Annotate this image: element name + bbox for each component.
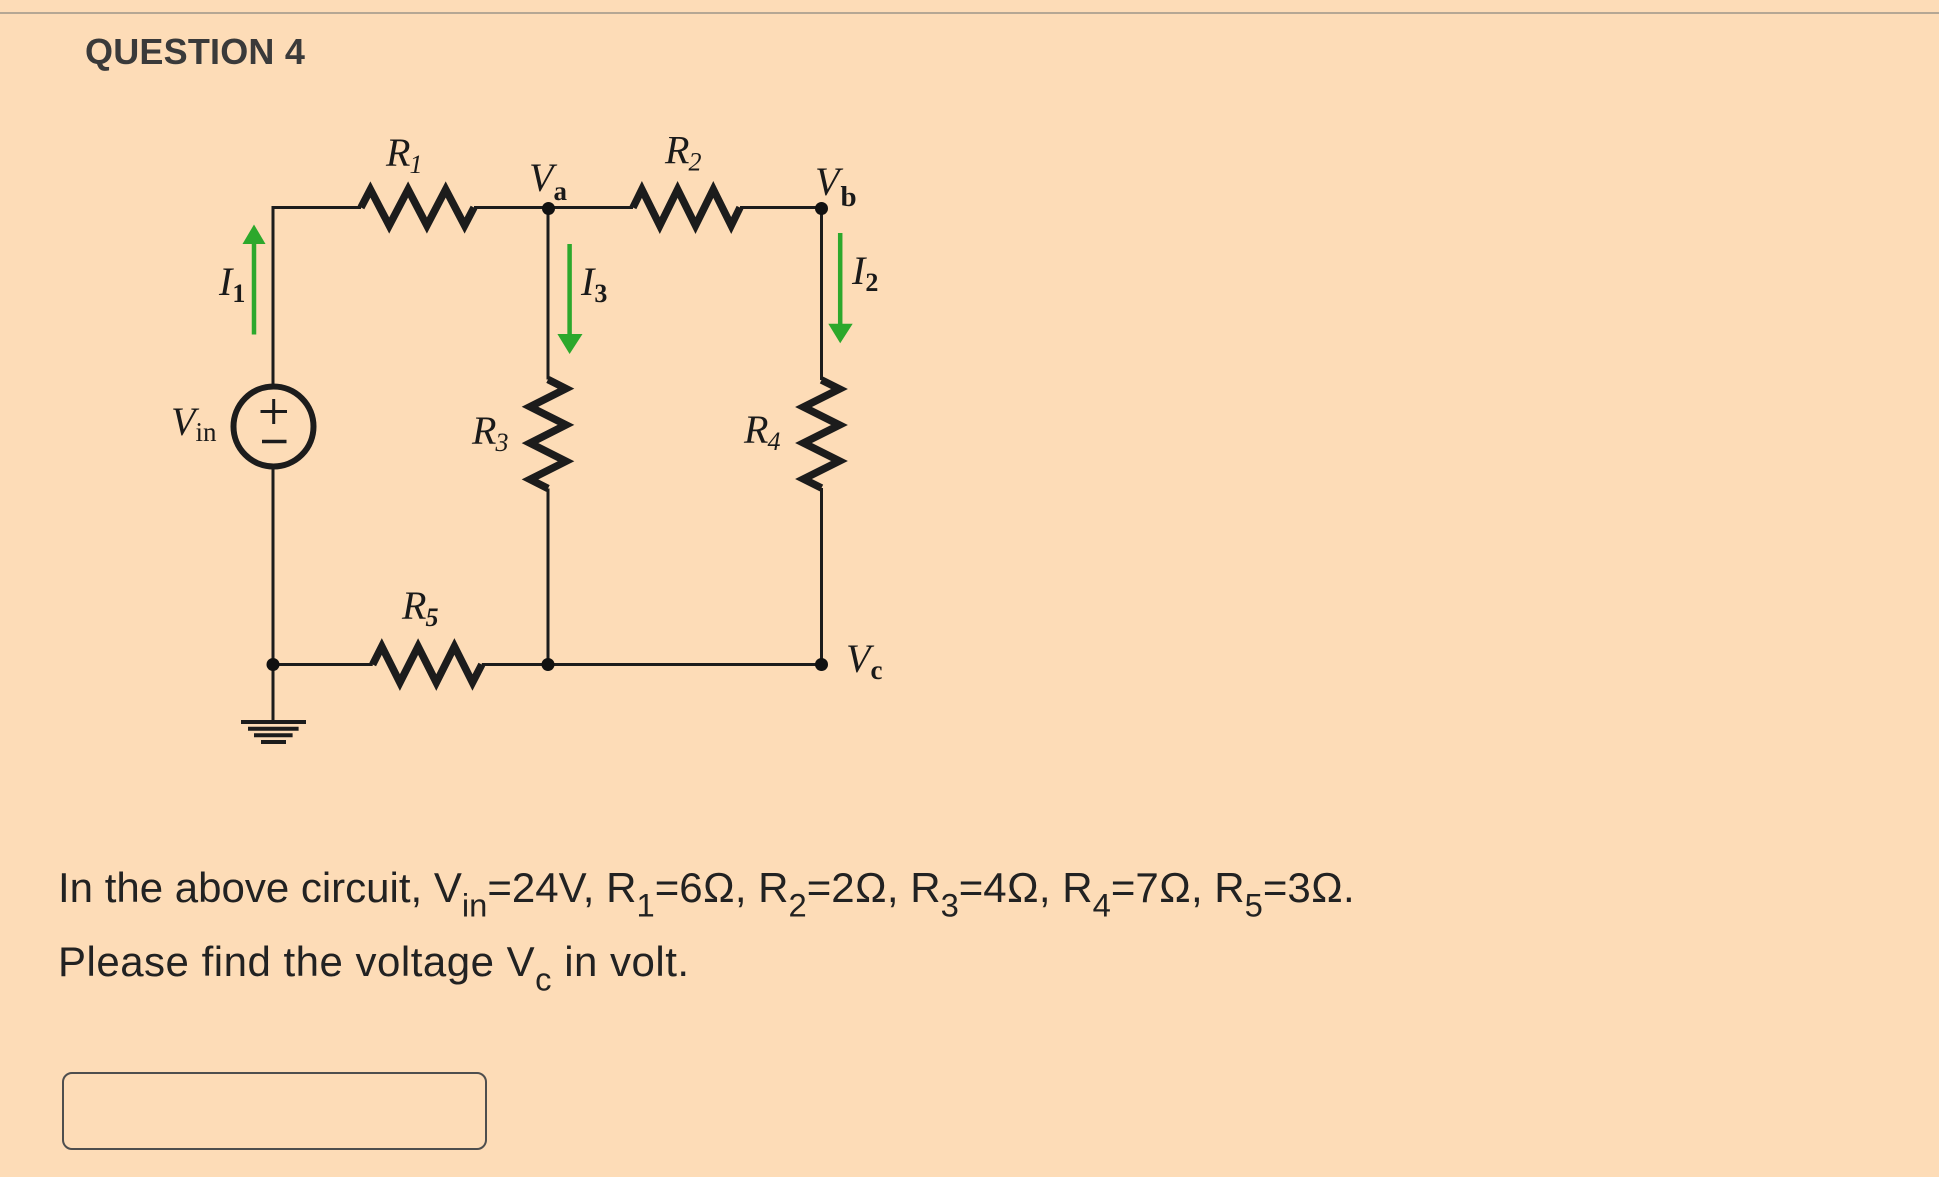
wire bottom right	[482, 663, 822, 666]
node bottom-middle	[542, 658, 555, 671]
svg-text:I1: I1	[218, 259, 245, 308]
svg-text:Vin: Vin	[171, 399, 217, 447]
question title	[85, 34, 305, 70]
current arrow I2	[828, 233, 852, 343]
wire ground stem	[272, 665, 275, 723]
wire middle vertical bottom	[547, 489, 550, 665]
wire R1 to R2 through node Va	[474, 206, 633, 209]
resistor R2	[633, 190, 740, 226]
svg-text:R2: R2	[664, 128, 701, 177]
wire bottom left	[273, 663, 373, 666]
svg-text:R1: R1	[385, 130, 422, 179]
wire R2 to node Vb	[740, 206, 822, 209]
answer input box	[62, 1072, 487, 1150]
source plus sign	[261, 399, 288, 424]
source minus sign	[262, 440, 287, 444]
top divider line	[0, 12, 1939, 14]
question text line 1	[58, 867, 1355, 909]
current arrow I1	[243, 225, 266, 335]
labels	[171, 128, 882, 686]
wire left vertical top	[272, 206, 275, 387]
current arrow I3	[557, 244, 582, 354]
wire top-left horizontal	[273, 206, 361, 209]
node Va	[542, 202, 555, 215]
wire right vertical top	[820, 209, 823, 380]
question text line 2	[58, 941, 690, 983]
svg-text:R5: R5	[401, 583, 438, 632]
resistor R5	[373, 647, 482, 683]
resistor R4	[804, 380, 840, 488]
svg-text:Vc: Vc	[846, 636, 882, 685]
wire left vertical bottom	[272, 467, 275, 665]
node Vb	[815, 202, 828, 215]
svg-text:Va: Va	[529, 155, 567, 206]
node Vc	[815, 658, 828, 671]
wire right vertical bottom	[820, 488, 823, 665]
svg-text:I3: I3	[580, 259, 607, 308]
wire middle vertical top	[547, 208, 550, 380]
node bottom-left	[267, 658, 280, 671]
ground	[241, 722, 306, 742]
svg-text:I2: I2	[851, 248, 878, 297]
voltage source Vin circle	[234, 387, 314, 467]
svg-text:R4: R4	[743, 407, 780, 456]
resistor R1	[361, 190, 474, 226]
svg-text:R3: R3	[471, 408, 508, 457]
resistor R3	[530, 380, 566, 489]
